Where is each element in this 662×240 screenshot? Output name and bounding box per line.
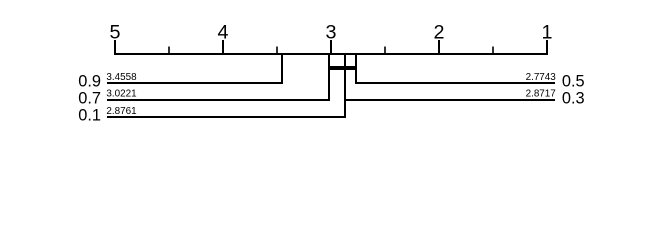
svg-text:2.8717: 2.8717 [526, 88, 556, 99]
svg-text:3.0221: 3.0221 [106, 88, 137, 99]
svg-text:2.7743: 2.7743 [526, 72, 557, 83]
svg-text:2: 2 [433, 21, 444, 43]
svg-text:0.1: 0.1 [78, 107, 101, 125]
svg-text:5: 5 [109, 21, 120, 43]
svg-text:3: 3 [325, 21, 336, 43]
svg-text:0.9: 0.9 [78, 73, 101, 91]
svg-text:1: 1 [541, 21, 552, 43]
svg-text:0.3: 0.3 [562, 90, 585, 108]
svg-text:4: 4 [217, 21, 228, 43]
svg-text:3.4558: 3.4558 [106, 72, 137, 83]
svg-text:2.8761: 2.8761 [106, 106, 137, 117]
svg-text:0.7: 0.7 [78, 90, 101, 108]
svg-text:0.5: 0.5 [562, 73, 585, 91]
